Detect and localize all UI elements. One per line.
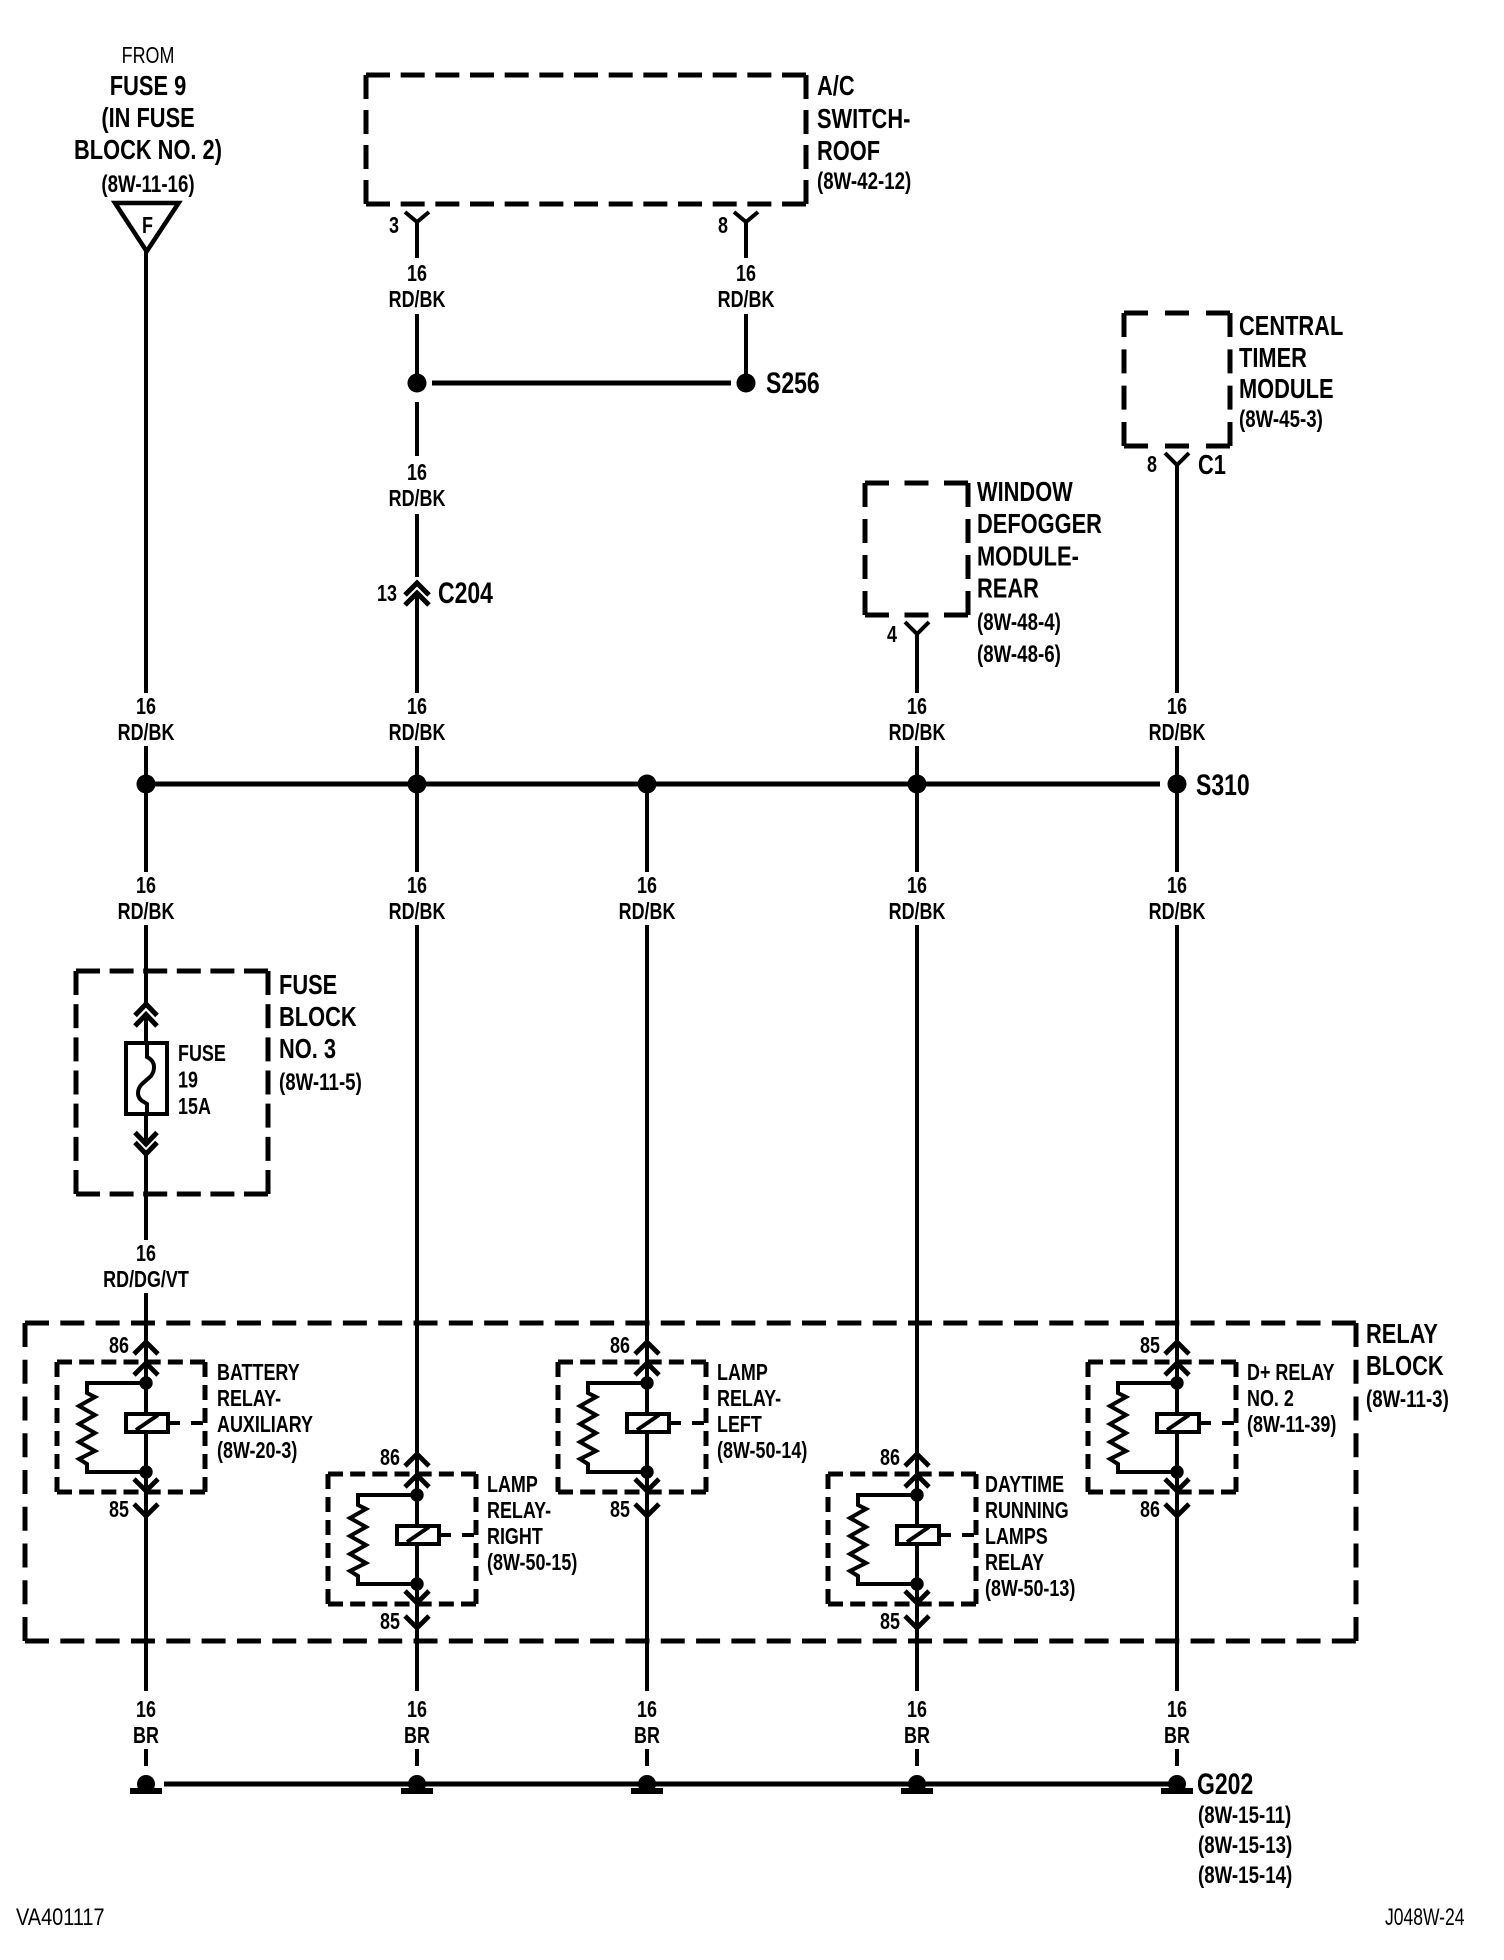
- wire label 16 BR (wire 2): [381, 1697, 453, 1749]
- relay BATTERY RELAY-AUXILIARY : suppression resistor: [79, 1383, 146, 1472]
- svg-text:16: 16: [407, 694, 427, 720]
- svg-text:LAMP: LAMP: [487, 1472, 538, 1498]
- svg-text:AUXILIARY: AUXILIARY: [217, 1412, 313, 1438]
- wire from A/C pin8 to S256: [744, 222, 748, 258]
- svg-text:16: 16: [136, 1241, 156, 1267]
- relay LAMP RELAY-RIGHT : case-bottom pin chevron: [405, 1591, 429, 1603]
- svg-text:85: 85: [109, 1497, 129, 1523]
- svg-text:(8W-15-11): (8W-15-11): [1198, 1802, 1291, 1829]
- svg-text:BLOCK NO. 2): BLOCK NO. 2): [74, 134, 222, 165]
- wire W2: A/C pin3 branch RD/BK vertical: [415, 222, 419, 258]
- relay LAMP RELAY-LEFT : pin 85 terminal chevron: [635, 1504, 659, 1516]
- svg-text:D+ RELAY: D+ RELAY: [1247, 1360, 1335, 1386]
- svg-text:RELAY: RELAY: [1366, 1318, 1438, 1349]
- relay D+ RELAY NO. 2 : coil box: [1157, 1414, 1199, 1432]
- wire label 16 BR (wire 3): [611, 1697, 683, 1749]
- relay LAMP RELAY-RIGHT : pin 86 terminal chevron: [405, 1454, 429, 1466]
- svg-text:15A: 15A: [178, 1094, 211, 1120]
- svg-text:MODULE: MODULE: [1239, 373, 1334, 404]
- relay BATTERY RELAY-AUXILIARY : pin 86 terminal chevron: [134, 1342, 158, 1354]
- svg-text:(8W-11-5): (8W-11-5): [279, 1069, 362, 1096]
- svg-text:16: 16: [907, 694, 927, 720]
- svg-text:RELAY-: RELAY-: [217, 1386, 281, 1412]
- relay LAMP RELAY-RIGHT : suppression resistor: [350, 1495, 417, 1584]
- relay DAYTIME RUNNING LAMPS RELAY : coil box: [897, 1526, 939, 1544]
- splice S256 left junction: [408, 374, 427, 393]
- wire label 16 RD/BK (pin3): [381, 261, 453, 313]
- svg-text:86: 86: [109, 1333, 129, 1359]
- splice S310 junction W3: [638, 775, 657, 794]
- svg-text:F: F: [142, 213, 153, 239]
- splice S256 right junction: [737, 374, 756, 393]
- svg-text:DEFOGGER: DEFOGGER: [977, 509, 1102, 540]
- wire label 16 RD/BK above S310 (W2): [381, 694, 453, 746]
- relay LAMP RELAY-RIGHT : coil pin stub: [439, 1533, 451, 1537]
- svg-text:85: 85: [610, 1497, 630, 1523]
- splice S310 junction W2: [408, 775, 427, 794]
- ground junction and terminal (wire 5): [1168, 1775, 1186, 1793]
- relay LAMP RELAY-RIGHT : coil box: [397, 1526, 439, 1544]
- svg-text:16: 16: [407, 1697, 427, 1723]
- wire label 16 RD/BK above S310 (W1): [110, 694, 182, 746]
- relay BATTERY RELAY-AUXILIARY : coil wire: [144, 1383, 148, 1472]
- ground junction and terminal (wire 3): [638, 1775, 656, 1793]
- relay DAYTIME RUNNING LAMPS RELAY : suppression resistor: [850, 1495, 917, 1584]
- pin 4 of window defogger module: [905, 622, 929, 634]
- svg-text:16: 16: [136, 694, 156, 720]
- svg-text:(8W-15-13): (8W-15-13): [1198, 1832, 1292, 1859]
- svg-text:(8W-48-4): (8W-48-4): [977, 609, 1061, 636]
- svg-text:DAYTIME: DAYTIME: [985, 1472, 1064, 1498]
- svg-text:RELAY-: RELAY-: [487, 1498, 551, 1524]
- svg-text:FUSE: FUSE: [279, 969, 337, 1000]
- svg-text:86: 86: [1140, 1497, 1160, 1523]
- svg-text:16: 16: [907, 873, 927, 899]
- svg-text:RD/BK: RD/BK: [389, 287, 446, 313]
- relay D+ RELAY NO. 2 : case-bottom pin chevron: [1165, 1479, 1189, 1491]
- svg-text:16: 16: [637, 873, 657, 899]
- relay D+ RELAY NO. 2 : coil wire: [1175, 1383, 1179, 1472]
- relay D+ RELAY NO. 2 : dashed case: [1088, 1360, 1236, 1365]
- relay D+ RELAY NO. 2 : suppression resistor: [1110, 1383, 1177, 1472]
- svg-text:16: 16: [136, 1697, 156, 1723]
- relay LAMP RELAY-RIGHT : coil bottom node: [410, 1577, 423, 1590]
- svg-text:RD/BK: RD/BK: [118, 899, 175, 925]
- wire label 16 RD/BK below S310 (W4): [881, 873, 953, 925]
- relay BATTERY RELAY-AUXILIARY : pin 85 terminal chevron: [134, 1504, 158, 1516]
- svg-text:8: 8: [1147, 452, 1157, 478]
- svg-text:RD/BK: RD/BK: [118, 720, 175, 746]
- relay DAYTIME RUNNING LAMPS RELAY : case-top pin chevron: [905, 1475, 929, 1487]
- svg-text:VA401117: VA401117: [16, 1903, 105, 1930]
- svg-text:RIGHT: RIGHT: [487, 1524, 543, 1550]
- wire W4: defogger branch RD/BK vertical: [915, 634, 919, 693]
- svg-text:19: 19: [178, 1067, 198, 1093]
- relay DAYTIME RUNNING LAMPS RELAY : coil wire: [915, 1495, 919, 1584]
- svg-text:G202: G202: [1197, 1767, 1253, 1800]
- relay DAYTIME RUNNING LAMPS RELAY : dashed case: [828, 1472, 976, 1477]
- relay DAYTIME RUNNING LAMPS RELAY : case-bottom pin chevron: [905, 1591, 929, 1603]
- relay LAMP RELAY-LEFT : case-bottom pin chevron: [635, 1479, 659, 1491]
- svg-text:RD/BK: RD/BK: [889, 899, 946, 925]
- svg-text:RUNNING: RUNNING: [985, 1498, 1069, 1524]
- svg-text:86: 86: [380, 1445, 400, 1471]
- relay D+ RELAY NO. 2 : coil pin stub: [1199, 1421, 1211, 1425]
- wire label 16 RD/BK (below S256): [381, 460, 453, 512]
- relay DAYTIME RUNNING LAMPS RELAY : pin 86 terminal chevron: [905, 1454, 929, 1466]
- svg-text:RELAY-: RELAY-: [717, 1386, 781, 1412]
- svg-text:LEFT: LEFT: [717, 1412, 762, 1438]
- svg-text:RD/BK: RD/BK: [1149, 899, 1206, 925]
- relay BATTERY RELAY-AUXILIARY : coil box: [126, 1414, 168, 1432]
- wire W1: fuse feed RD/BK vertical: [144, 251, 148, 693]
- relay BATTERY RELAY-AUXILIARY : coil pin stub: [168, 1421, 180, 1425]
- fuse F19 body: [126, 1043, 167, 1114]
- svg-text:4: 4: [887, 622, 897, 648]
- svg-text:J048W-24: J048W-24: [1385, 1904, 1465, 1930]
- relay block outer dashed box: [25, 1321, 1356, 1326]
- svg-text:(8W-42-12): (8W-42-12): [817, 168, 911, 195]
- ground junction and terminal (wire 4): [908, 1775, 926, 1793]
- ground G202 bus wire: [164, 1782, 1170, 1787]
- svg-text:RD/BK: RD/BK: [889, 720, 946, 746]
- relay DAYTIME RUNNING LAMPS RELAY : pin 85 terminal chevron: [905, 1616, 929, 1628]
- svg-text:16: 16: [1167, 873, 1187, 899]
- svg-text:3: 3: [389, 213, 399, 239]
- relay DAYTIME RUNNING LAMPS RELAY : coil top node: [910, 1488, 923, 1501]
- svg-text:S256: S256: [766, 366, 820, 399]
- relay D+ RELAY NO. 2 : pin 86 terminal chevron: [1165, 1504, 1189, 1516]
- svg-text:(IN FUSE: (IN FUSE: [101, 102, 194, 133]
- splice S310 end junction W5: [1168, 775, 1187, 794]
- svg-text:8: 8: [718, 213, 728, 239]
- splice S310 junction W1: [137, 775, 156, 794]
- svg-text:RD/BK: RD/BK: [718, 287, 775, 313]
- svg-text:(8W-11-39): (8W-11-39): [1247, 1412, 1336, 1438]
- svg-text:FROM: FROM: [122, 43, 175, 69]
- svg-text:SWITCH-: SWITCH-: [817, 103, 910, 134]
- svg-text:(8W-15-14): (8W-15-14): [1198, 1862, 1292, 1889]
- fuse block no.3 dashed box: [76, 969, 268, 974]
- splice S310 bus wire: [146, 782, 1160, 787]
- svg-text:(8W-20-3): (8W-20-3): [217, 1438, 297, 1464]
- relay LAMP RELAY-LEFT : coil wire: [645, 1383, 649, 1472]
- pin 3 of A/C switch: [405, 212, 429, 222]
- svg-text:(8W-11-16): (8W-11-16): [101, 171, 194, 198]
- wire label 16 RD/BK below S310 (W1): [110, 873, 182, 925]
- relay BATTERY RELAY-AUXILIARY : coil bottom node: [139, 1465, 152, 1478]
- svg-text:C1: C1: [1198, 449, 1226, 480]
- module CENTRAL TIMER MODULE dashed box: [1124, 311, 1230, 316]
- wire label 16 BR (wire 1): [110, 1697, 182, 1749]
- fuse block exit double chevron: [135, 1133, 157, 1145]
- svg-text:16: 16: [1167, 1697, 1187, 1723]
- svg-text:85: 85: [880, 1609, 900, 1635]
- svg-text:(8W-50-13): (8W-50-13): [985, 1576, 1075, 1602]
- svg-text:FUSE: FUSE: [178, 1041, 226, 1067]
- pin 8 of central timer module, connector C1: [1165, 453, 1189, 465]
- svg-text:MODULE-: MODULE-: [977, 541, 1079, 572]
- svg-text:BATTERY: BATTERY: [217, 1360, 300, 1386]
- svg-text:WINDOW: WINDOW: [977, 476, 1073, 507]
- relay BATTERY RELAY-AUXILIARY : coil top node: [139, 1376, 152, 1389]
- svg-text:(8W-45-3): (8W-45-3): [1239, 406, 1323, 433]
- svg-text:16: 16: [407, 460, 427, 486]
- wire label 16 RD/BK (pin8): [710, 261, 782, 313]
- svg-text:86: 86: [880, 1445, 900, 1471]
- wire label 16 RD/BK below S310 (W2): [381, 873, 453, 925]
- relay BATTERY RELAY-AUXILIARY : case-bottom pin chevron: [134, 1479, 158, 1491]
- wire label 16 RD/BK above S310 (W4): [881, 694, 953, 746]
- fuse block entry double chevron: [135, 1004, 157, 1016]
- wire W3: lamp relay left RD/BK vertical: [645, 789, 649, 872]
- module WINDOW DEFOGGER MODULE-REAR dashed box: [865, 481, 968, 486]
- svg-text:85: 85: [1140, 1333, 1160, 1359]
- svg-text:RD/BK: RD/BK: [389, 720, 446, 746]
- relay LAMP RELAY-RIGHT : dashed case: [328, 1472, 476, 1477]
- svg-text:NO. 2: NO. 2: [1247, 1386, 1294, 1412]
- svg-text:BLOCK: BLOCK: [1366, 1350, 1444, 1381]
- svg-text:(8W-50-14): (8W-50-14): [717, 1438, 807, 1464]
- wire W5: central timer module branch RD/BK vertical: [1175, 465, 1179, 693]
- module A/C SWITCH-ROOF dashed box: [366, 73, 806, 78]
- splice S256 bus wire: [432, 381, 731, 386]
- svg-text:85: 85: [380, 1609, 400, 1635]
- ground junction and terminal (wire 2): [408, 1775, 426, 1793]
- svg-text:BR: BR: [634, 1723, 660, 1749]
- svg-text:LAMP: LAMP: [717, 1360, 768, 1386]
- svg-text:REAR: REAR: [977, 573, 1039, 604]
- svg-text:BR: BR: [404, 1723, 430, 1749]
- relay LAMP RELAY-LEFT : case-top pin chevron: [635, 1363, 659, 1375]
- svg-text:16: 16: [907, 1697, 927, 1723]
- wire label 16 BR (wire 5): [1141, 1697, 1213, 1749]
- wire label 16 RD/BK above S310 (W5): [1141, 694, 1213, 746]
- svg-text:RD/DG/VT: RD/DG/VT: [103, 1267, 189, 1293]
- svg-text:LAMPS: LAMPS: [985, 1524, 1048, 1550]
- svg-text:16: 16: [136, 873, 156, 899]
- relay LAMP RELAY-LEFT : coil top node: [640, 1376, 653, 1389]
- relay D+ RELAY NO. 2 : case-top pin chevron: [1165, 1363, 1189, 1375]
- relay DAYTIME RUNNING LAMPS RELAY : coil pin stub: [939, 1533, 951, 1537]
- wire label 16 RD/BK below S310 (W3): [611, 873, 683, 925]
- relay D+ RELAY NO. 2 : coil bottom node: [1170, 1465, 1183, 1478]
- source feed triangle F: [115, 203, 179, 251]
- svg-text:A/C: A/C: [817, 70, 855, 101]
- svg-text:16: 16: [736, 261, 756, 287]
- svg-text:BLOCK: BLOCK: [279, 1001, 357, 1032]
- relay LAMP RELAY-RIGHT : case-top pin chevron: [405, 1475, 429, 1487]
- svg-text:(8W-11-3): (8W-11-3): [1366, 1386, 1449, 1413]
- relay LAMP RELAY-LEFT : coil box: [627, 1414, 669, 1432]
- svg-text:16: 16: [637, 1697, 657, 1723]
- svg-text:13: 13: [377, 581, 397, 607]
- relay LAMP RELAY-RIGHT : coil top node: [410, 1488, 423, 1501]
- relay DAYTIME RUNNING LAMPS RELAY : coil bottom node: [910, 1577, 923, 1590]
- svg-text:RD/BK: RD/BK: [619, 899, 676, 925]
- svg-text:RD/BK: RD/BK: [1149, 720, 1206, 746]
- relay LAMP RELAY-LEFT : coil pin stub: [669, 1421, 681, 1425]
- svg-text:BR: BR: [1164, 1723, 1190, 1749]
- svg-text:(8W-48-6): (8W-48-6): [977, 641, 1061, 668]
- relay LAMP RELAY-RIGHT : pin 85 terminal chevron: [405, 1616, 429, 1628]
- relay D+ RELAY NO. 2 : pin 85 terminal chevron: [1165, 1342, 1189, 1354]
- wire label 16 RD/DG/VT: [94, 1241, 198, 1293]
- wire label 16 BR (wire 4): [881, 1697, 953, 1749]
- svg-text:RD/BK: RD/BK: [389, 899, 446, 925]
- relay D+ RELAY NO. 2 : coil top node: [1170, 1376, 1183, 1389]
- svg-text:NO. 3: NO. 3: [279, 1033, 336, 1064]
- svg-text:86: 86: [610, 1333, 630, 1359]
- relay LAMP RELAY-RIGHT : coil wire: [415, 1495, 419, 1584]
- svg-text:CENTRAL: CENTRAL: [1239, 310, 1343, 341]
- svg-text:RD/BK: RD/BK: [389, 486, 446, 512]
- svg-text:BR: BR: [133, 1723, 159, 1749]
- svg-text:ROOF: ROOF: [817, 135, 880, 166]
- svg-text:RELAY: RELAY: [985, 1550, 1044, 1576]
- svg-text:(8W-50-15): (8W-50-15): [487, 1550, 577, 1576]
- relay LAMP RELAY-LEFT : pin 86 terminal chevron: [635, 1342, 659, 1354]
- ground junction and terminal (wire 1): [137, 1775, 155, 1793]
- relay BATTERY RELAY-AUXILIARY : dashed case: [57, 1360, 205, 1365]
- svg-text:S310: S310: [1196, 768, 1250, 801]
- svg-text:16: 16: [1167, 694, 1187, 720]
- connector C204 double chevron: [405, 583, 429, 595]
- splice S310 junction W4: [908, 775, 927, 794]
- pin 8 of A/C switch: [734, 212, 758, 222]
- svg-text:BR: BR: [904, 1723, 930, 1749]
- svg-text:16: 16: [407, 261, 427, 287]
- relay BATTERY RELAY-AUXILIARY : case-top pin chevron: [134, 1363, 158, 1375]
- svg-text:TIMER: TIMER: [1239, 342, 1307, 373]
- relay LAMP RELAY-LEFT : coil bottom node: [640, 1465, 653, 1478]
- svg-text:16: 16: [407, 873, 427, 899]
- svg-text:FUSE 9: FUSE 9: [110, 70, 186, 101]
- relay LAMP RELAY-LEFT : dashed case: [558, 1360, 706, 1365]
- relay LAMP RELAY-LEFT : suppression resistor: [580, 1383, 647, 1472]
- wire label 16 RD/BK below S310 (W5): [1141, 873, 1213, 925]
- svg-text:C204: C204: [438, 576, 493, 609]
